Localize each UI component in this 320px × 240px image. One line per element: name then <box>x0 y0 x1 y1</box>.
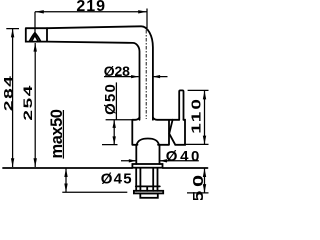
faucet spout head <box>26 28 47 41</box>
svg-text:219: 219 <box>76 0 106 15</box>
dim max50 line <box>65 168 67 192</box>
spout tube top <box>47 26 153 120</box>
svg-text:Ø40: Ø40 <box>166 148 202 165</box>
label max50 underline <box>62 110 64 159</box>
svg-text:284: 284 <box>3 74 16 111</box>
base flange <box>132 164 162 168</box>
spout tube bottom <box>47 42 140 120</box>
aerator <box>29 33 40 42</box>
max50 / Ø45 reference line <box>62 191 127 193</box>
svg-text:50: 50 <box>189 171 206 200</box>
svg-text:Ø50: Ø50 <box>102 83 119 115</box>
svg-text:254: 254 <box>22 84 35 121</box>
nut <box>140 193 158 197</box>
dim 284 arrows <box>11 29 14 38</box>
shank tubes <box>136 168 157 190</box>
base cylinder <box>136 145 159 164</box>
lever base <box>169 120 185 145</box>
shank clip line <box>136 185 160 187</box>
dim 110 <box>184 90 208 144</box>
counter line <box>3 167 208 169</box>
dim Ø50 <box>102 120 132 145</box>
dim 284 line <box>6 29 19 167</box>
svg-text:max50: max50 <box>48 109 66 158</box>
lever bar <box>179 90 183 119</box>
label Ø50 underline <box>115 82 117 119</box>
svg-text:Ø45: Ø45 <box>101 170 133 187</box>
dim 50 <box>187 168 209 193</box>
washer <box>134 191 163 194</box>
svg-text:Ø28: Ø28 <box>104 63 130 79</box>
svg-text:110: 110 <box>189 97 204 134</box>
body dome <box>137 139 159 145</box>
dim Ø40 <box>121 160 199 162</box>
dim 219 arrows <box>35 10 44 13</box>
dim 219 line <box>35 9 147 34</box>
body block <box>132 117 179 144</box>
dim 254 line <box>34 43 36 167</box>
pipe centerline dashed <box>145 30 147 119</box>
dim Ø28 <box>104 76 168 78</box>
dim 254 arrows <box>34 43 37 52</box>
dim max50 arrows <box>64 168 67 177</box>
